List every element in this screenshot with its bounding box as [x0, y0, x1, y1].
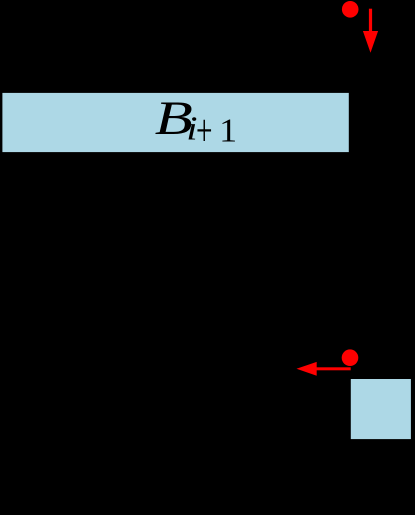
- red arrow down: [363, 9, 378, 53]
- svg-text:+: +: [196, 106, 212, 156]
- small square: [350, 378, 412, 440]
- svg-text:1: 1: [219, 111, 237, 149]
- red arrow left: [297, 362, 351, 376]
- block B_{i+1}: [2, 92, 350, 157]
- red dot (top): [342, 1, 359, 18]
- red dot (bottom): [342, 349, 359, 366]
